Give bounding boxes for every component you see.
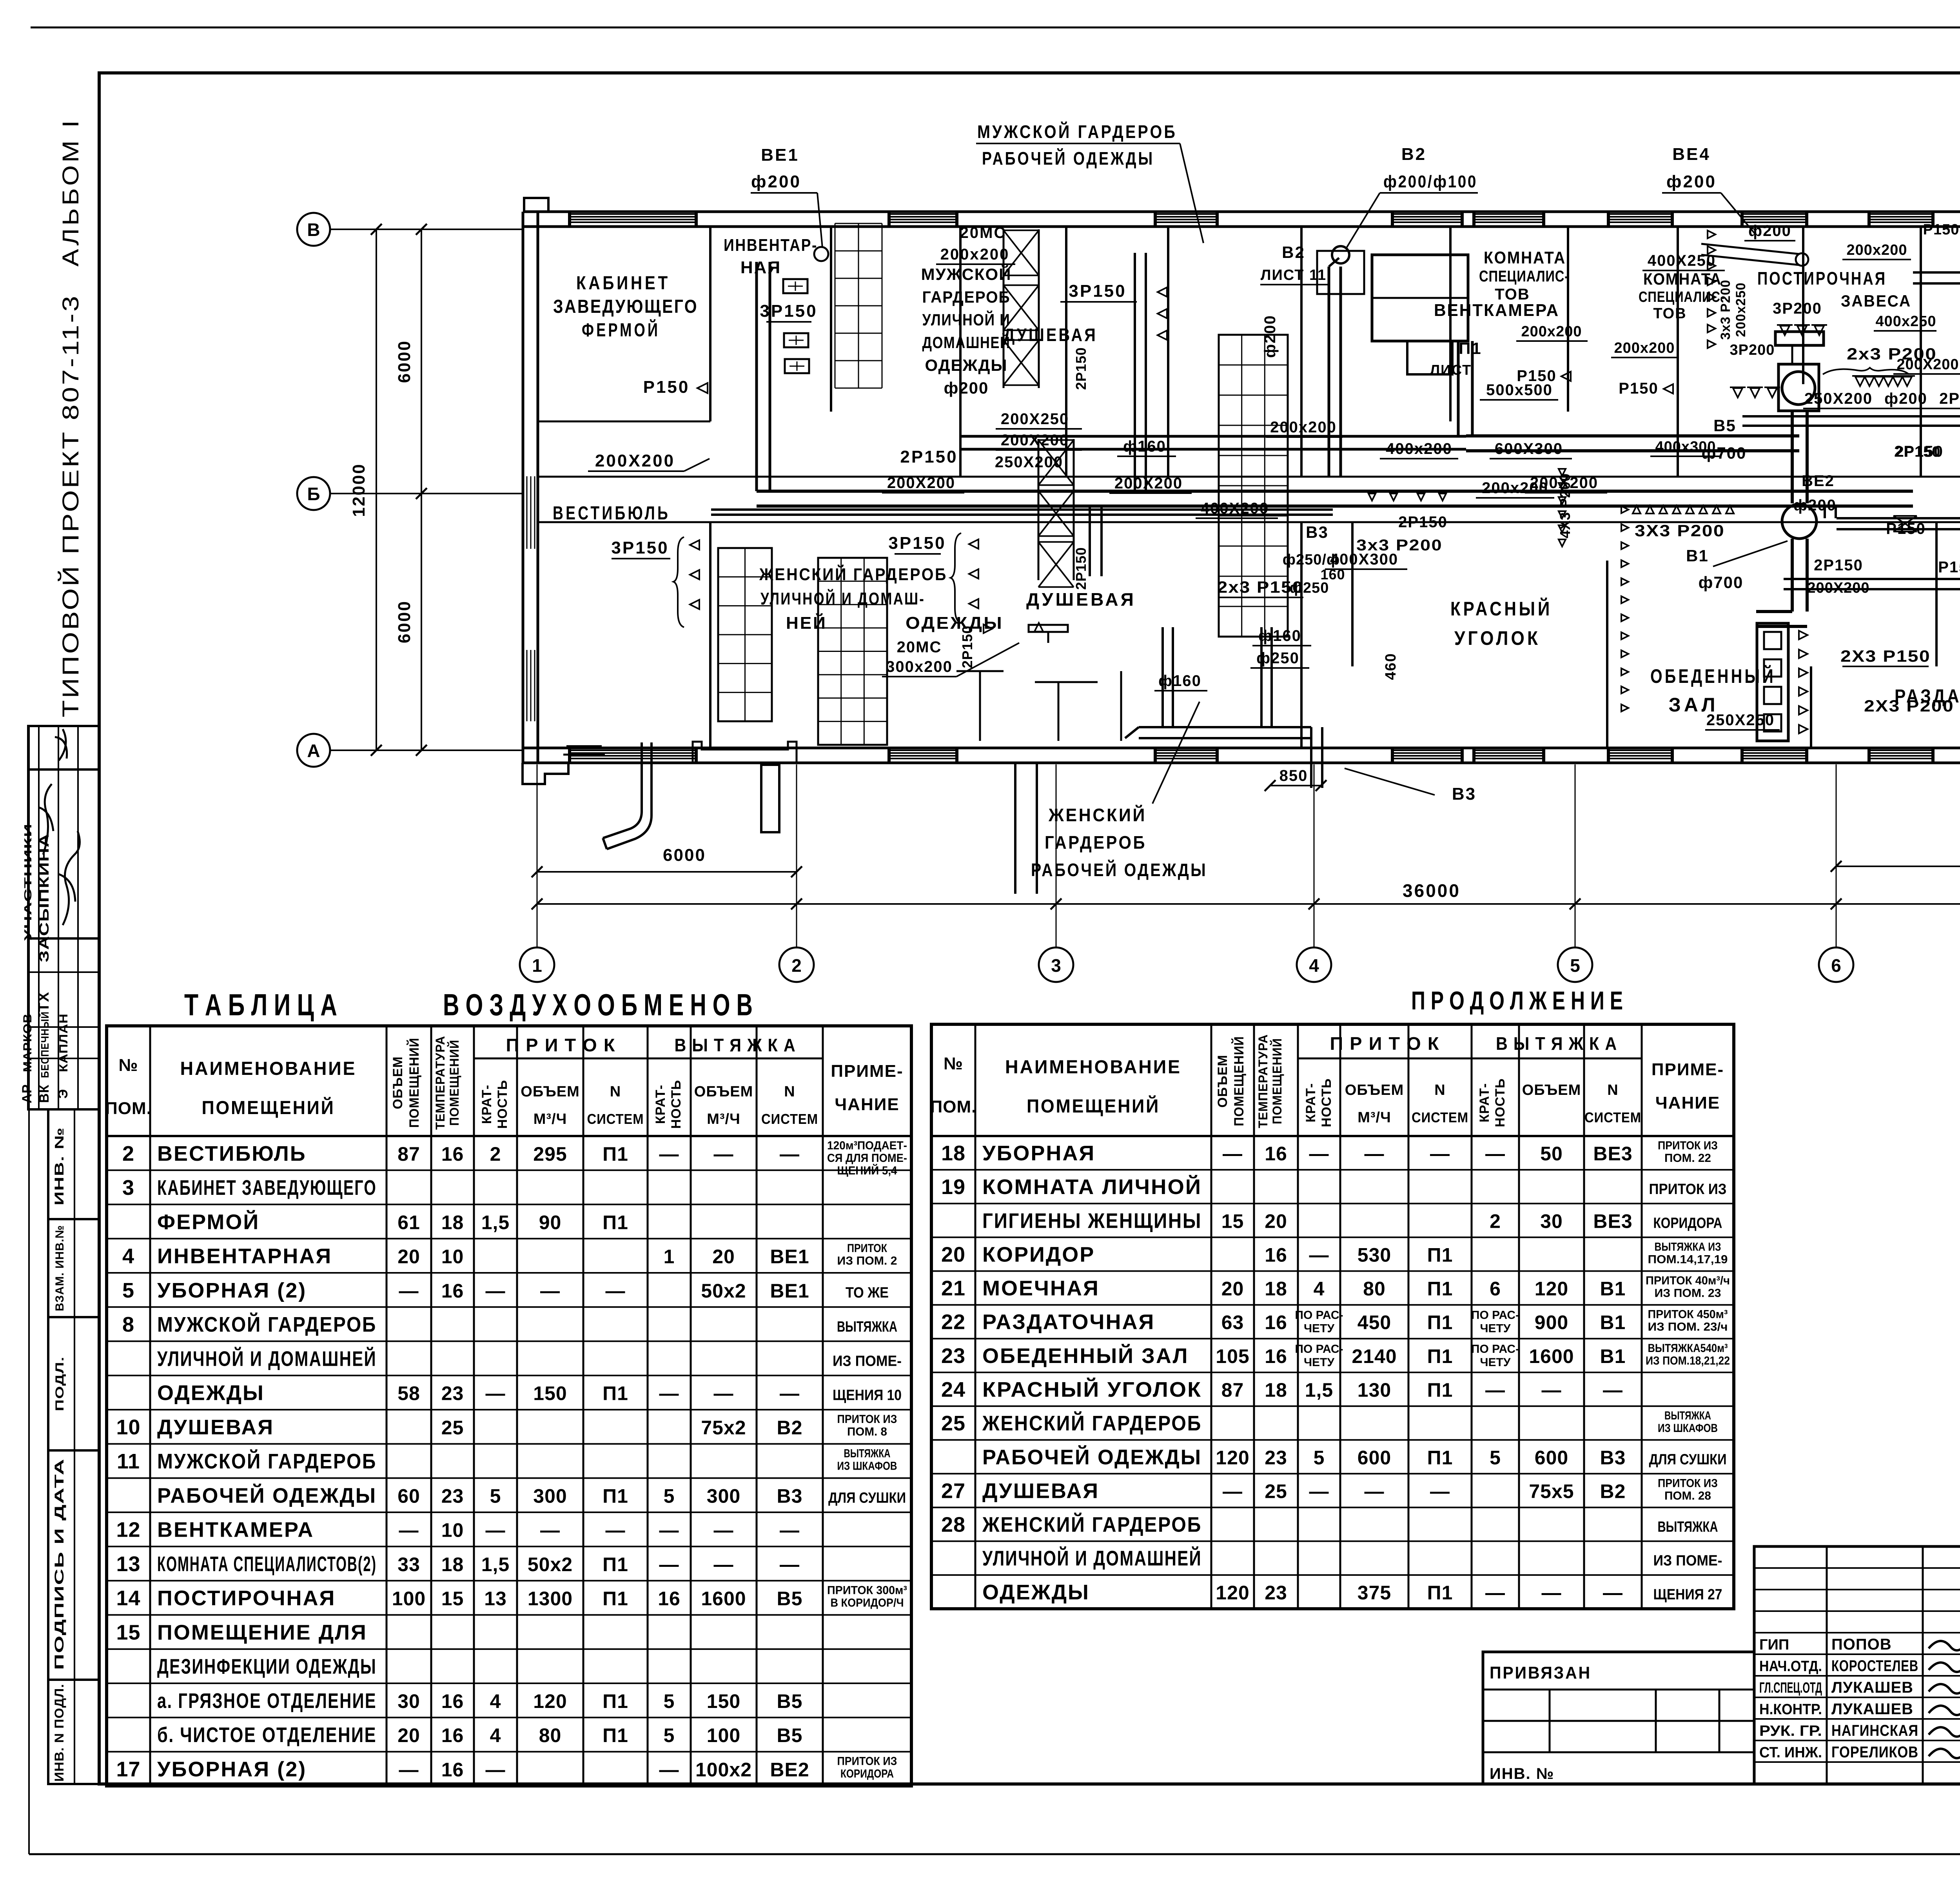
svg-text:16: 16 [658, 1588, 681, 1610]
svg-text:ПОПОВ: ПОПОВ [1831, 1636, 1892, 1653]
svg-text:КОМНАТА СПЕЦИАЛИСТОВ(2): КОМНАТА СПЕЦИАЛИСТОВ(2) [157, 1552, 377, 1576]
partition x3700 upper [1449, 227, 1452, 421]
svg-text:ДЛЯ СУШКИ: ДЛЯ СУШКИ [828, 1490, 906, 1506]
svg-text:—: — [1542, 1379, 1562, 1401]
svg-text:В1: В1 [1600, 1345, 1626, 1367]
dim line 36000 [537, 903, 1960, 905]
svg-text:13: 13 [484, 1588, 507, 1610]
svg-text:КАБИНЕТ: КАБИНЕТ [576, 273, 670, 294]
svg-text:ПОМЕЩЕНИЙ: ПОМЕЩЕНИЙ [1231, 1036, 1247, 1126]
svg-text:СТ. ИНЖ.: СТ. ИНЖ. [1759, 1744, 1822, 1761]
corridor duct 200x200 band [711, 508, 1333, 511]
corridor upper wall [538, 476, 1960, 478]
svg-text:24: 24 [941, 1378, 965, 1401]
svg-text:—: — [1430, 1480, 1450, 1502]
grille triangles красный уголок [1633, 506, 1641, 514]
svg-text:19: 19 [941, 1175, 965, 1199]
svg-text:ф200: ф200 [1884, 390, 1927, 407]
svg-text:ЧЕТУ: ЧЕТУ [1304, 1356, 1334, 1369]
svg-text:ОБЕДЕННЫЙ ЗАЛ: ОБЕДЕННЫЙ ЗАЛ [982, 1344, 1189, 1368]
svg-text:ЧЕТУ: ЧЕТУ [1304, 1322, 1334, 1335]
svg-text:ПО РАС-: ПО РАС- [1471, 1343, 1519, 1356]
duct riser VE1 [755, 262, 758, 491]
svg-text:6000: 6000 [395, 340, 414, 383]
svg-text:ПОМ. 8: ПОМ. 8 [847, 1425, 887, 1438]
svg-text:П1: П1 [1427, 1345, 1453, 1367]
svg-text:П1: П1 [1427, 1312, 1453, 1334]
svg-text:6000: 6000 [663, 846, 706, 865]
svg-text:П Р И Т О К: П Р И Т О К [1330, 1033, 1440, 1054]
svg-text:75х5: 75х5 [1529, 1480, 1574, 1502]
svg-text:250Х250: 250Х250 [1706, 711, 1775, 729]
svg-text:—: — [659, 1143, 679, 1165]
svg-text:КРАТ-: КРАТ- [653, 1085, 668, 1124]
svg-text:30: 30 [397, 1690, 420, 1712]
shower upper zigzag stack [1004, 230, 1039, 231]
svg-text:ПОДПИСЬ И ДАТА: ПОДПИСЬ И ДАТА [52, 1458, 66, 1670]
svg-text:ЖЕНСКИЙ ГАРДЕРОБ: ЖЕНСКИЙ ГАРДЕРОБ [982, 1411, 1202, 1435]
svg-text:150: 150 [707, 1690, 740, 1712]
svg-text:2: 2 [122, 1142, 134, 1165]
svg-text:УЛИЧНОЙ И: УЛИЧНОЙ И [922, 310, 1011, 329]
svg-text:250Х200: 250Х200 [995, 454, 1063, 471]
svg-text:П1: П1 [603, 1211, 628, 1233]
svg-text:—: — [714, 1554, 734, 1575]
svg-text:100х2: 100х2 [695, 1759, 752, 1781]
svg-text:П1: П1 [603, 1485, 628, 1507]
svg-text:10: 10 [116, 1416, 140, 1439]
svg-text:ИНВ. №: ИНВ. № [52, 1127, 66, 1205]
partition x4000 upper [1567, 227, 1569, 412]
svg-text:20: 20 [1265, 1210, 1287, 1232]
svg-text:П1: П1 [603, 1143, 628, 1165]
partition ventkamera right [1300, 227, 1303, 477]
svg-text:ПРИТОК ИЗ: ПРИТОК ИЗ [1649, 1181, 1727, 1198]
svg-text:16: 16 [1265, 1312, 1287, 1334]
svg-text:ЧАНИЕ: ЧАНИЕ [835, 1095, 899, 1114]
svg-text:3Х3 Р200: 3Х3 Р200 [1635, 521, 1725, 540]
svg-text:5: 5 [1314, 1446, 1325, 1468]
locker grid женский уличной [818, 558, 887, 745]
grille zavesa symbols [1777, 324, 1793, 326]
svg-text:2х3 Р200: 2х3 Р200 [1847, 345, 1937, 363]
partition vestibule right lower [709, 521, 711, 748]
svg-text:—: — [399, 1280, 419, 1302]
svg-text:СПЕЦИАЛИС-: СПЕЦИАЛИС- [1639, 289, 1725, 305]
svg-text:—: — [1365, 1480, 1385, 1502]
svg-text:4: 4 [122, 1245, 134, 1268]
svg-text:50: 50 [1540, 1143, 1563, 1165]
svg-text:2: 2 [490, 1143, 501, 1165]
svg-text:ВЕ2: ВЕ2 [1802, 472, 1835, 490]
svg-text:КАБИНЕТ ЗАВЕДУЮЩЕГО: КАБИНЕТ ЗАВЕДУЮЩЕГО [157, 1176, 377, 1200]
svg-text:—: — [606, 1280, 626, 1302]
svg-text:П1: П1 [1427, 1244, 1453, 1266]
svg-text:450: 450 [1357, 1312, 1391, 1334]
svg-text:УЧАСТНИКИ: УЧАСТНИКИ [22, 823, 34, 941]
svg-text:В Ы Т Я Ж К А: В Ы Т Я Ж К А [675, 1035, 796, 1055]
svg-text:В Ы Т Я Ж К А: В Ы Т Я Ж К А [1496, 1033, 1617, 1054]
svg-text:3Р150: 3Р150 [760, 301, 817, 321]
svg-text:16: 16 [441, 1724, 464, 1746]
curtain slab [1775, 332, 1824, 345]
svg-text:ВЫТЯЖКА: ВЫТЯЖКА [844, 1447, 891, 1460]
svg-text:6: 6 [1490, 1278, 1501, 1300]
svg-text:20: 20 [1221, 1278, 1244, 1300]
svg-text:—: — [1223, 1143, 1243, 1165]
svg-text:ВЕСТИБЮЛЬ: ВЕСТИБЮЛЬ [553, 503, 670, 524]
svg-text:ВЕ1: ВЕ1 [770, 1246, 809, 1268]
svg-text:90: 90 [539, 1211, 562, 1233]
svg-text:2Р150: 2Р150 [1398, 514, 1448, 531]
svg-text:ЩЕНИЯ 10: ЩЕНИЯ 10 [833, 1387, 902, 1404]
svg-text:ПРИТОК 300м³: ПРИТОК 300м³ [827, 1584, 907, 1597]
svg-text:М³/Ч: М³/Ч [1357, 1109, 1391, 1126]
svg-text:200х200: 200х200 [1847, 242, 1907, 258]
svg-text:87: 87 [397, 1143, 420, 1165]
svg-text:ф200: ф200 [1666, 172, 1717, 191]
stamp strip upper box [28, 726, 99, 1109]
svg-text:П1: П1 [603, 1724, 628, 1746]
personnel stamp box [1754, 1546, 1960, 1784]
grille triangles column постирочная [1708, 230, 1715, 238]
shower stalls lower [956, 670, 1004, 672]
svg-text:П Р О Д О Л Ж Е Н И Е: П Р О Д О Л Ж Е Н И Е [1411, 986, 1623, 1015]
svg-text:300х200: 300х200 [886, 658, 953, 675]
svg-text:600: 600 [1357, 1446, 1391, 1468]
svg-text:КОРИДОР: КОРИДОР [982, 1243, 1095, 1266]
svg-text:Р150: Р150 [1923, 221, 1960, 238]
svg-text:ПРИТОК ИЗ: ПРИТОК ИЗ [1658, 1139, 1718, 1152]
svg-text:УБОРНАЯ: УБОРНАЯ [982, 1142, 1095, 1165]
svg-text:ПОМЕЩЕНИЙ: ПОМЕЩЕНИЙ [202, 1097, 335, 1118]
svg-text:16: 16 [1265, 1345, 1287, 1367]
svg-text:13: 13 [116, 1552, 140, 1576]
svg-text:20МС: 20МС [960, 224, 1007, 241]
svg-text:58: 58 [397, 1383, 420, 1405]
svg-text:ф160: ф160 [1123, 438, 1166, 455]
svg-text:23: 23 [441, 1485, 464, 1507]
svg-text:АР: АР [20, 1084, 34, 1103]
svg-text:П1: П1 [1427, 1278, 1453, 1300]
svg-text:—: — [606, 1519, 626, 1541]
svg-text:200Х200: 200Х200 [1114, 475, 1183, 492]
svg-text:КОМНАТА: КОМНАТА [1643, 270, 1722, 288]
svg-text:16: 16 [441, 1690, 464, 1712]
svg-text:МУЖСКОЙ ГАРДЕРОБ: МУЖСКОЙ ГАРДЕРОБ [977, 122, 1177, 142]
svg-text:4: 4 [490, 1690, 501, 1712]
svg-text:20: 20 [397, 1724, 420, 1746]
svg-text:ВЕ2: ВЕ2 [770, 1759, 809, 1781]
ventkamera downfeed [1457, 341, 1460, 436]
axis circles 1-7 [520, 947, 554, 982]
svg-text:В2: В2 [1600, 1480, 1626, 1502]
svg-text:ф200: ф200 [751, 172, 801, 191]
svg-text:5: 5 [664, 1690, 675, 1712]
svg-text:16: 16 [1265, 1143, 1287, 1165]
svg-text:СИСТЕМ: СИСТЕМ [1584, 1109, 1641, 1125]
svg-text:ТОВ: ТОВ [1495, 286, 1530, 303]
svg-text:КРАТ-: КРАТ- [1303, 1083, 1318, 1122]
svg-text:В3: В3 [1452, 784, 1476, 804]
svg-text:5: 5 [1490, 1446, 1501, 1468]
svg-text:61: 61 [397, 1211, 420, 1233]
svg-text:ДОМАШНЕЙ: ДОМАШНЕЙ [922, 333, 1011, 352]
svg-text:ф200: ф200 [1748, 222, 1791, 240]
svg-text:№: № [118, 1056, 138, 1075]
svg-text:ГЛ.СПЕЦ.ОТД: ГЛ.СПЕЦ.ОТД [1759, 1680, 1822, 1696]
svg-text:—: — [780, 1554, 800, 1575]
svg-text:УЛИЧНОЙ И ДОМАШ-: УЛИЧНОЙ И ДОМАШ- [760, 588, 925, 608]
svg-text:ОБЪЕМ: ОБЪЕМ [390, 1056, 405, 1109]
svg-text:16: 16 [1265, 1244, 1287, 1266]
svg-text:ф200: ф200 [1793, 497, 1837, 514]
svg-text:—: — [1603, 1379, 1623, 1401]
постирочная duct assembly [1742, 415, 1960, 417]
svg-text:N: N [610, 1083, 621, 1100]
svg-text:460: 460 [1383, 653, 1399, 680]
svg-text:ВЕНТКАМЕРА: ВЕНТКАМЕРА [157, 1518, 314, 1542]
exterior left wall [522, 212, 524, 763]
svg-text:ДУШЕВАЯ: ДУШЕВАЯ [982, 1479, 1099, 1503]
svg-text:СПЕЦИАЛИС-: СПЕЦИАЛИС- [1479, 268, 1569, 285]
svg-text:КРАТ-: КРАТ- [1477, 1083, 1492, 1122]
ventkamera fan unit [1372, 255, 1468, 341]
dim line 6000 bottom left [537, 871, 797, 873]
svg-text:ВЕ3: ВЕ3 [1593, 1210, 1632, 1232]
svg-text:ИНВ. N ПОДЛ.: ИНВ. N ПОДЛ. [52, 1684, 66, 1782]
svg-text:4Х3 Р200: 4Х3 Р200 [1557, 473, 1573, 538]
svg-text:ТЕМПЕРАТУРА: ТЕМПЕРАТУРА [433, 1036, 447, 1130]
shower lower zigzag stack [1038, 439, 1074, 441]
svg-text:20: 20 [712, 1246, 735, 1268]
svg-text:ВЫТЯЖКА540м³: ВЫТЯЖКА540м³ [1648, 1342, 1728, 1355]
svg-text:1,5: 1,5 [1305, 1379, 1334, 1401]
привязан box [1483, 1652, 1754, 1784]
svg-text:ОДЕЖДЫ: ОДЕЖДЫ [925, 356, 1007, 374]
svg-text:50х2: 50х2 [701, 1280, 746, 1302]
bottom wall window strips and pillars [570, 750, 696, 751]
svg-text:ЗАВЕСА: ЗАВЕСА [1841, 292, 1911, 310]
svg-text:ВЕ3: ВЕ3 [1593, 1143, 1632, 1165]
svg-text:В3: В3 [777, 1485, 803, 1507]
svg-text:ПРИТОК ИЗ: ПРИТОК ИЗ [1658, 1477, 1718, 1490]
svg-text:—: — [1485, 1582, 1505, 1604]
svg-text:ИЗ ПОМ. 23: ИЗ ПОМ. 23 [1655, 1287, 1721, 1300]
svg-text:ПОМ. 28: ПОМ. 28 [1664, 1489, 1711, 1502]
fan box B5 [1779, 364, 1819, 411]
svg-text:ПОМЕЩЕНИЙ: ПОМЕЩЕНИЙ [1027, 1095, 1160, 1117]
svg-text:18: 18 [1265, 1379, 1287, 1401]
svg-text:ВК: ВК [37, 1084, 52, 1103]
svg-text:15: 15 [1221, 1210, 1244, 1232]
vertical dim line 6000 x2 [421, 229, 422, 750]
porch B pier [693, 742, 797, 763]
svg-text:900: 900 [1535, 1312, 1568, 1334]
partition ventkamera left [1167, 227, 1169, 477]
svg-text:УБОРНАЯ (2): УБОРНАЯ (2) [157, 1279, 307, 1302]
svg-text:ф250: ф250 [1256, 650, 1299, 667]
vestibule mid wall [538, 421, 710, 423]
svg-text:25: 25 [941, 1412, 965, 1435]
svg-text:200Х200: 200Х200 [887, 474, 955, 492]
svg-text:ПО РАС-: ПО РАС- [1295, 1343, 1343, 1356]
partition lower раздаточная [1810, 666, 1812, 748]
svg-text:120м³ПОДАЕТ-: 120м³ПОДАЕТ- [827, 1139, 907, 1152]
svg-text:50х2: 50х2 [528, 1554, 573, 1575]
supply duct 600x300 [1466, 434, 1799, 437]
svg-text:ВЕ1: ВЕ1 [770, 1280, 809, 1302]
svg-text:В1: В1 [1600, 1278, 1626, 1300]
svg-text:ИЗ ПОМЕ-: ИЗ ПОМЕ- [1653, 1553, 1722, 1569]
svg-text:ДУШЕВАЯ: ДУШЕВАЯ [1026, 589, 1136, 610]
svg-text:14: 14 [116, 1586, 140, 1610]
svg-text:В5: В5 [777, 1690, 803, 1712]
svg-text:НОСТЬ: НОСТЬ [669, 1080, 684, 1129]
svg-text:80: 80 [539, 1724, 562, 1746]
svg-text:120: 120 [1535, 1278, 1568, 1300]
svg-text:УГОЛОК: УГОЛОК [1454, 627, 1541, 649]
svg-text:ПРИТОК ИЗ: ПРИТОК ИЗ [837, 1755, 897, 1768]
svg-text:—: — [399, 1519, 419, 1541]
locker grid вестибюль right [718, 548, 772, 721]
svg-text:200Х200: 200Х200 [595, 451, 675, 470]
svg-text:120: 120 [533, 1690, 567, 1712]
left table grid [107, 1026, 911, 1786]
svg-text:ОБЕДЕННЫЙ: ОБЕДЕННЫЙ [1650, 665, 1776, 687]
svg-text:5: 5 [1570, 955, 1580, 976]
svg-text:16: 16 [441, 1280, 464, 1302]
locker grid женский рабочей [1219, 335, 1288, 637]
svg-text:850: 850 [1279, 767, 1308, 784]
partition vestibule right upper [709, 227, 711, 421]
svg-text:ГИП: ГИП [1759, 1637, 1789, 1653]
svg-text:ПОСТИРОЧНАЯ: ПОСТИРОЧНАЯ [1757, 268, 1887, 289]
svg-text:3Р150: 3Р150 [888, 534, 946, 553]
grille column обеденный left [1621, 506, 1628, 513]
svg-text:МУЖСКОЙ ГАРДЕРОБ: МУЖСКОЙ ГАРДЕРОБ [157, 1312, 377, 1336]
svg-text:а. ГРЯЗНОЕ ОТДЕЛЕНИЕ: а. ГРЯЗНОЕ ОТДЕЛЕНИЕ [157, 1689, 377, 1713]
partition x4280 upper [1677, 227, 1679, 477]
svg-text:—: — [1430, 1143, 1450, 1165]
grille column 4x3 P200 [1559, 469, 1566, 476]
svg-text:400х250: 400х250 [1876, 313, 1936, 330]
svg-text:РАЗДАТОЧНАЯ: РАЗДАТОЧНАЯ [982, 1310, 1155, 1334]
svg-text:8: 8 [122, 1313, 134, 1336]
svg-text:11: 11 [117, 1450, 140, 1473]
svg-text:100: 100 [707, 1724, 740, 1746]
svg-text:ВЕ4: ВЕ4 [1672, 145, 1711, 164]
svg-text:В КОРИДОР/Ч: В КОРИДОР/Ч [831, 1596, 904, 1609]
svg-text:ДЛЯ СУШКИ: ДЛЯ СУШКИ [1649, 1451, 1727, 1468]
svg-text:15: 15 [116, 1621, 140, 1644]
svg-text:П1: П1 [603, 1588, 628, 1610]
svg-text:1: 1 [664, 1246, 675, 1268]
svg-text:2Х3 Р150: 2Х3 Р150 [1840, 647, 1931, 665]
svg-text:ЩЕНИЯ 27: ЩЕНИЯ 27 [1653, 1586, 1722, 1603]
svg-text:400Х200: 400Х200 [1201, 500, 1269, 517]
partition x4900 upper [1920, 227, 1922, 477]
svg-text:1600: 1600 [701, 1588, 746, 1610]
svg-text:4: 4 [490, 1724, 501, 1746]
svg-text:3Р150: 3Р150 [611, 538, 669, 557]
svg-text:ф160: ф160 [1258, 627, 1301, 644]
svg-text:ЧЕТУ: ЧЕТУ [1480, 1322, 1510, 1335]
svg-text:100: 100 [392, 1588, 426, 1610]
svg-text:—: — [540, 1519, 560, 1541]
partition x4600 upper [1802, 227, 1804, 384]
fan circle B1 fi700 [1782, 504, 1817, 539]
locker grid мужской [835, 223, 836, 388]
svg-text:6000: 6000 [395, 600, 414, 643]
svg-text:3Р150: 3Р150 [1069, 281, 1126, 301]
porch hook canopy [607, 742, 652, 849]
svg-text:200х200: 200х200 [940, 246, 1010, 263]
svg-text:60: 60 [397, 1485, 420, 1507]
svg-text:НАЯ: НАЯ [740, 258, 781, 277]
svg-text:М³/Ч: М³/Ч [534, 1111, 567, 1127]
svg-text:П1: П1 [603, 1554, 628, 1575]
svg-text:ВЕСТИБЮЛЬ: ВЕСТИБЮЛЬ [157, 1142, 307, 1165]
svg-text:—: — [486, 1519, 506, 1541]
svg-text:N: N [1434, 1082, 1445, 1098]
svg-text:Н.КОНТР.: Н.КОНТР. [1759, 1701, 1822, 1718]
svg-text:10: 10 [441, 1519, 464, 1541]
svg-text:200х200: 200х200 [1521, 323, 1582, 340]
bottom stub wall [1014, 763, 1016, 894]
svg-text:ИЗ ШКАФОВ: ИЗ ШКАФОВ [837, 1459, 897, 1472]
svg-text:10: 10 [441, 1246, 464, 1268]
svg-text:295: 295 [533, 1143, 567, 1165]
svg-text:—: — [714, 1383, 734, 1405]
svg-text:200Х200: 200Х200 [1807, 580, 1869, 596]
svg-text:ФЕРМОЙ: ФЕРМОЙ [157, 1210, 260, 1234]
svg-text:120: 120 [1216, 1582, 1249, 1604]
duct riser B5/B1 [1791, 411, 1794, 503]
svg-text:УЛИЧНОЙ И ДОМАШНЕЙ: УЛИЧНОЙ И ДОМАШНЕЙ [982, 1546, 1202, 1570]
svg-text:ЩЕНИЙ 5,4: ЩЕНИЙ 5,4 [837, 1164, 897, 1177]
svg-text:ПРИМЕ-: ПРИМЕ- [831, 1062, 903, 1081]
svg-text:НОСТЬ: НОСТЬ [1493, 1078, 1508, 1127]
svg-text:—: — [1309, 1244, 1329, 1266]
outer thin border bottom [29, 1853, 1960, 1855]
svg-text:б. ЧИСТОЕ ОТДЕЛЕНИЕ: б. ЧИСТОЕ ОТДЕЛЕНИЕ [157, 1723, 377, 1747]
дезинфекция upper duct run [1913, 271, 1960, 274]
svg-text:КОРИДОРА: КОРИДОРА [1653, 1215, 1722, 1231]
svg-text:12000: 12000 [349, 463, 368, 517]
svg-text:5: 5 [122, 1279, 134, 1302]
svg-text:В1: В1 [1686, 546, 1709, 565]
svg-text:В О З Д У Х О О Б М Е Н О В: В О З Д У Х О О Б М Е Н О В [443, 987, 753, 1022]
svg-text:—: — [714, 1143, 734, 1165]
svg-text:600: 600 [1535, 1446, 1568, 1468]
svg-text:ГАРДЕРОБ: ГАРДЕРОБ [1045, 832, 1147, 853]
outer thin border top [31, 27, 1960, 29]
axis extension lines bottom [537, 764, 538, 947]
svg-text:ИНВЕНТАР-: ИНВЕНТАР- [724, 236, 818, 255]
main corridor duct [757, 490, 1913, 493]
svg-text:N: N [1607, 1082, 1618, 1098]
exterior bottom wall [523, 747, 1960, 750]
svg-text:ВЕ1: ВЕ1 [761, 145, 799, 165]
svg-text:—: — [399, 1759, 419, 1781]
svg-text:ПОМ.: ПОМ. [105, 1099, 152, 1118]
svg-text:ИЗ ПОМ. 23/ч: ИЗ ПОМ. 23/ч [1648, 1321, 1728, 1334]
svg-text:5: 5 [490, 1485, 501, 1507]
svg-text:1,5: 1,5 [481, 1554, 510, 1575]
partition x2120 upper [830, 227, 832, 412]
svg-text:ПРИТОК ИЗ: ПРИТОК ИЗ [837, 1413, 897, 1426]
